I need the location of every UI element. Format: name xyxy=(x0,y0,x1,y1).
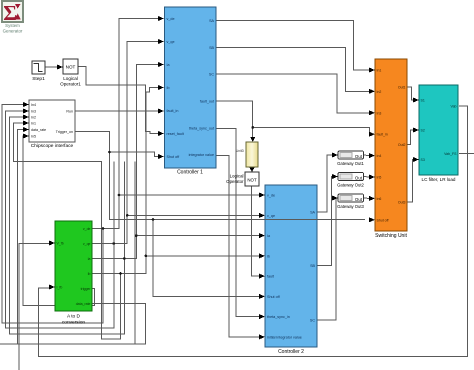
svg-text:V_fb: V_fb xyxy=(57,242,64,246)
svg-text:v_qe: v_qe xyxy=(167,40,175,44)
svg-text:NOT: NOT xyxy=(66,65,76,70)
svg-text:theta_sync_in: theta_sync_in xyxy=(267,315,290,319)
svg-text:Run: Run xyxy=(66,110,73,114)
wire branch Ib to Controller2 in4 xyxy=(147,255,259,257)
svg-text:Gateway Out3: Gateway Out3 xyxy=(337,204,364,209)
arrow into SwitchingUnit In6 xyxy=(369,196,375,201)
svg-text:integrator value: integrator value xyxy=(189,153,214,157)
svg-text:Chipscope interface: Chipscope interface xyxy=(31,143,74,149)
arrow into UnitDelay xyxy=(250,137,255,142)
subsystem Controller 1 xyxy=(165,7,217,176)
svg-text:In5: In5 xyxy=(377,176,382,180)
wire Chipscope Run to Controller1 fault_in xyxy=(75,110,158,112)
svg-text:Switching Unit: Switching Unit xyxy=(375,233,407,239)
svg-text:Shut off: Shut off xyxy=(377,218,389,222)
arrow into Controller2 in4 xyxy=(259,253,265,258)
arrow into Controller1 in1 xyxy=(158,16,164,21)
svg-text:trigger: trigger xyxy=(81,287,92,291)
arrow into Controller1 reset_fault xyxy=(158,131,164,136)
arrow into AD I_fb xyxy=(49,285,55,290)
wire LC filter Vab wrap to AD I_fb xyxy=(38,106,467,357)
wire wrap AD out4 to Chipscope In1 xyxy=(14,123,121,339)
svg-text:Gateway Out2: Gateway Out2 xyxy=(337,183,364,188)
wire Controller2 SC to Gateway Out3 xyxy=(317,198,336,320)
wire shut-off line overlay crossing Controller 2 xyxy=(265,219,317,221)
svg-text:Shut off: Shut off xyxy=(167,155,181,159)
svg-text:Ia: Ia xyxy=(88,257,91,261)
svg-text:Generator: Generator xyxy=(3,29,23,34)
arrow into Chipscope In3 xyxy=(23,109,29,114)
node shutoff C2 branch xyxy=(152,218,155,221)
arrow into Chipscope In4 xyxy=(23,102,29,107)
wire branch v_de to Controller2 in1 xyxy=(119,194,259,196)
wire Step1 to NOT1 xyxy=(45,66,57,68)
arrow into Controller2 Shut off xyxy=(259,294,265,299)
subsystem Switching Unit (orange) xyxy=(375,59,407,239)
svg-text:Trigger_on: Trigger_on xyxy=(56,130,73,134)
subsystem LC filter, LR load (cyan) xyxy=(419,85,458,182)
svg-text:In3: In3 xyxy=(31,110,36,114)
node Ib branch xyxy=(145,255,148,258)
node wrap3 branch xyxy=(123,257,126,260)
wire wrap AD out1 to Chipscope In4 xyxy=(2,105,103,324)
wire Controller1 SC to SwitchingUnit In3 xyxy=(216,74,369,113)
svg-text:In2: In2 xyxy=(31,116,36,120)
svg-text:Out3: Out3 xyxy=(398,201,406,205)
svg-text:Operator: Operator xyxy=(226,179,244,184)
svg-text:SB: SB xyxy=(310,264,315,268)
wire bottom return to AD V_fb xyxy=(19,244,49,370)
node fault branch xyxy=(251,126,254,129)
svg-text:v_qe: v_qe xyxy=(83,242,91,246)
svg-text:Logical: Logical xyxy=(63,76,78,81)
arrow into Controller1 in3 xyxy=(158,62,164,67)
subsystem Controller 2 xyxy=(265,185,317,355)
wire SwitchingUnit Out2 to LC filter S2 xyxy=(407,130,413,145)
svg-text:In6: In6 xyxy=(377,197,382,201)
svg-text:v_de: v_de xyxy=(167,17,175,21)
subsystem A to D conversion (green) xyxy=(55,221,92,326)
arrow into LC filter S1 xyxy=(413,98,419,103)
wire branch Ia to Controller2 in3 xyxy=(136,235,259,237)
wire SwitchingUnit Out1 to LC filter S1 xyxy=(407,87,413,100)
wire Controller1 SA to SwitchingUnit In1 xyxy=(216,20,369,70)
svg-text:Out: Out xyxy=(355,175,363,180)
svg-text:LC filter, LR load: LC filter, LR load xyxy=(422,177,456,182)
svg-text:Ib: Ib xyxy=(167,86,170,90)
wire Controller1 fault_out down to UnitDelay xyxy=(216,101,253,137)
svg-text:Operator1: Operator1 xyxy=(60,82,81,87)
wire LC filter Vab_FS to right edge xyxy=(459,153,474,155)
wire Chipscope Trigger_on shut-off line to Switching Unit xyxy=(75,132,365,220)
gateway Gateway Out1 xyxy=(337,151,364,166)
svg-text:Out2: Out2 xyxy=(398,143,406,147)
wire branch trigger to Controller1 Shut off xyxy=(110,152,159,156)
svg-text:In4: In4 xyxy=(31,103,36,107)
svg-text:In4: In4 xyxy=(377,154,382,158)
logic gate NOT1 (Logical Operator1) xyxy=(60,59,81,87)
arrow into SwitchingUnit In2 xyxy=(369,89,375,94)
svg-text:data_rate: data_rate xyxy=(31,128,46,132)
svg-text:Out: Out xyxy=(355,154,363,159)
svg-text:A to D: A to D xyxy=(67,314,81,320)
svg-text:fault_in: fault_in xyxy=(167,109,179,113)
svg-text:Out: Out xyxy=(355,197,363,202)
svg-text:Ib: Ib xyxy=(88,272,91,276)
wire wrap AD out3 to Chipscope In2 xyxy=(10,117,125,334)
wire branch trigger to Controller2 Shut off xyxy=(153,220,259,297)
arrow into SwitchingUnit In1 xyxy=(369,68,375,73)
svg-text:NOT: NOT xyxy=(247,178,257,183)
arrow into Controller2 fault xyxy=(259,274,265,279)
arrow into LC filter S3 xyxy=(413,157,419,162)
svg-text:In1: In1 xyxy=(31,122,36,126)
wire wrap AD trigger out to Chipscope In5 xyxy=(23,136,95,306)
junction dots xyxy=(102,126,254,275)
wire UnitDelay to NOT2 xyxy=(251,167,253,169)
svg-text:v_qe: v_qe xyxy=(267,214,275,218)
arrow into Chipscope In2 xyxy=(23,115,29,120)
arrow into SwitchingUnit Shut off xyxy=(369,217,375,222)
svg-text:v_de: v_de xyxy=(267,194,275,198)
wire NOT2 down to Controller2 fault xyxy=(252,186,259,276)
arrow into AD V_fb xyxy=(49,241,55,246)
svg-text:data_rate: data_rate xyxy=(76,302,91,306)
svg-text:SA: SA xyxy=(209,19,214,23)
gateway Gateway Out2 xyxy=(337,173,364,188)
svg-text:conversion: conversion xyxy=(62,320,86,326)
arrow into Controller1 in2 xyxy=(158,39,164,44)
arrow into Chipscope data_rate xyxy=(23,127,29,132)
unit delay block (yellow) xyxy=(236,142,258,167)
wire Controller1 SB to SwitchingUnit In2 xyxy=(216,47,369,91)
wire Gateway Out2 to SwitchingUnit In5 xyxy=(364,176,370,179)
svg-text:Ib: Ib xyxy=(267,255,270,259)
wire NOT1 output to Controller1 reset_fault xyxy=(78,67,158,134)
subsystem Chipscope interface xyxy=(29,100,75,149)
wire Gateway Out1 to SwitchingUnit In4 xyxy=(364,154,370,157)
svg-text:Shut off: Shut off xyxy=(267,295,281,299)
svg-text:theta_sync_out: theta_sync_out xyxy=(189,126,214,130)
arrow into NOT1 xyxy=(57,65,63,70)
svg-text:fault: fault xyxy=(267,275,274,279)
svg-text:Controller 1: Controller 1 xyxy=(177,170,203,176)
svg-text:Controller 2: Controller 2 xyxy=(278,349,304,355)
wire branch fault to SwitchingUnit fault_in xyxy=(253,127,370,134)
arrow into Controller2 theta_sync_in xyxy=(259,314,265,319)
arrow into SwitchingUnit In4 xyxy=(369,153,375,158)
node Ia branch xyxy=(135,234,138,237)
svg-text:Σ: Σ xyxy=(3,1,17,25)
svg-text:Out1: Out1 xyxy=(398,86,406,90)
node wrap2 branch xyxy=(113,242,116,245)
arrow into Gateway Out2 xyxy=(332,174,338,179)
svg-text:fault_out: fault_out xyxy=(200,100,214,104)
step source Step1 xyxy=(32,61,45,82)
svg-text:Step1: Step1 xyxy=(32,76,45,82)
arrow into Chipscope In5 xyxy=(23,134,29,139)
svg-text:S3: S3 xyxy=(421,158,425,162)
wire Controller2 SB to Gateway Out2 xyxy=(317,177,332,266)
wire bus Ia: AD out3 up to Controller1 in3 xyxy=(92,65,158,259)
arrow into Controller2 in3 xyxy=(259,233,265,238)
wire Controller1 theta_sync_out to Controller2 theta_sync_in xyxy=(216,129,259,317)
arrow into Controller2 in1 xyxy=(259,193,265,198)
arrow into Controller2 in2 xyxy=(259,213,265,218)
wire SwitchingUnit Out3 to LC filter S3 xyxy=(407,160,413,203)
wire Gateway Out3 to SwitchingUnit In6 xyxy=(364,197,370,199)
wire bus Ib: AD out4 up to Controller1 in4 xyxy=(92,88,158,274)
wire Controller2 SA to Gateway Out1 xyxy=(317,155,332,212)
svg-text:In2: In2 xyxy=(377,90,382,94)
wire wrap AD data_rate out to Chipscope data_rate xyxy=(0,304,145,345)
arrow into Chipscope In1 xyxy=(23,121,29,126)
svg-text:reset_fault: reset_fault xyxy=(167,132,184,136)
svg-text:initial integrator value: initial integrator value xyxy=(267,336,302,340)
arrow into SwitchingUnit In5 xyxy=(369,175,375,180)
arrow into Controller1 Shut off xyxy=(158,154,164,159)
gateway Gateway Out3 xyxy=(337,194,364,209)
node v_de branch xyxy=(118,194,121,197)
svg-text:SB: SB xyxy=(209,46,214,50)
node shutoff C1 branch xyxy=(108,151,111,154)
svg-text:v_de: v_de xyxy=(83,227,91,231)
svg-text:Logical: Logical xyxy=(230,174,244,179)
svg-text:S1: S1 xyxy=(421,99,425,103)
svg-text:SC: SC xyxy=(209,73,214,77)
svg-text:Vab: Vab xyxy=(451,105,457,109)
arrow into SwitchingUnit In3 xyxy=(369,110,375,115)
wire wrap AD out2 to Chipscope In3 xyxy=(6,111,114,328)
wire branch v_qe to Controller2 in2 xyxy=(127,214,259,216)
System Generator block xyxy=(2,1,23,34)
arrow into Gateway Out3 xyxy=(332,196,338,201)
arrow into Controller1 in4 xyxy=(158,85,164,90)
logic gate NOT2 (Logical Operator) xyxy=(226,172,259,186)
arrow into LC filter S2 xyxy=(413,128,419,133)
node wrap1 branch xyxy=(102,227,105,230)
node v_qe branch xyxy=(126,214,129,217)
svg-text:SC: SC xyxy=(310,319,315,323)
svg-text:S2: S2 xyxy=(421,129,425,133)
svg-text:In3: In3 xyxy=(377,111,382,115)
arrow into SwitchingUnit fault_in xyxy=(369,132,375,137)
wire bus v_de: AD out1 up to Controller1 in1 xyxy=(92,19,158,229)
svg-text:In1: In1 xyxy=(377,68,382,72)
svg-text:In5: In5 xyxy=(31,135,36,139)
svg-text:System: System xyxy=(5,23,20,28)
arrow into Gateway Out1 xyxy=(332,153,338,158)
svg-text:fault_in: fault_in xyxy=(377,133,388,137)
arrow into Controller1 fault_in xyxy=(158,109,164,114)
svg-text:Vab_FS: Vab_FS xyxy=(444,152,457,156)
arrow into Controller2 initial integrator value xyxy=(259,334,265,339)
svg-text:SA: SA xyxy=(310,211,315,215)
ARROWHEADS xyxy=(23,16,419,339)
svg-text:I_fb: I_fb xyxy=(56,286,62,290)
svg-text:UnitD: UnitD xyxy=(236,149,245,153)
arrow into NOT2 xyxy=(250,168,255,173)
wire bus v_qe: AD out2 up to Controller1 in2 xyxy=(92,42,158,244)
wire Controller1 integrator value to Controller2 initial integrator value xyxy=(216,156,259,337)
svg-text:Gateway Out1: Gateway Out1 xyxy=(337,161,364,166)
node wrap4 branch xyxy=(119,272,122,275)
